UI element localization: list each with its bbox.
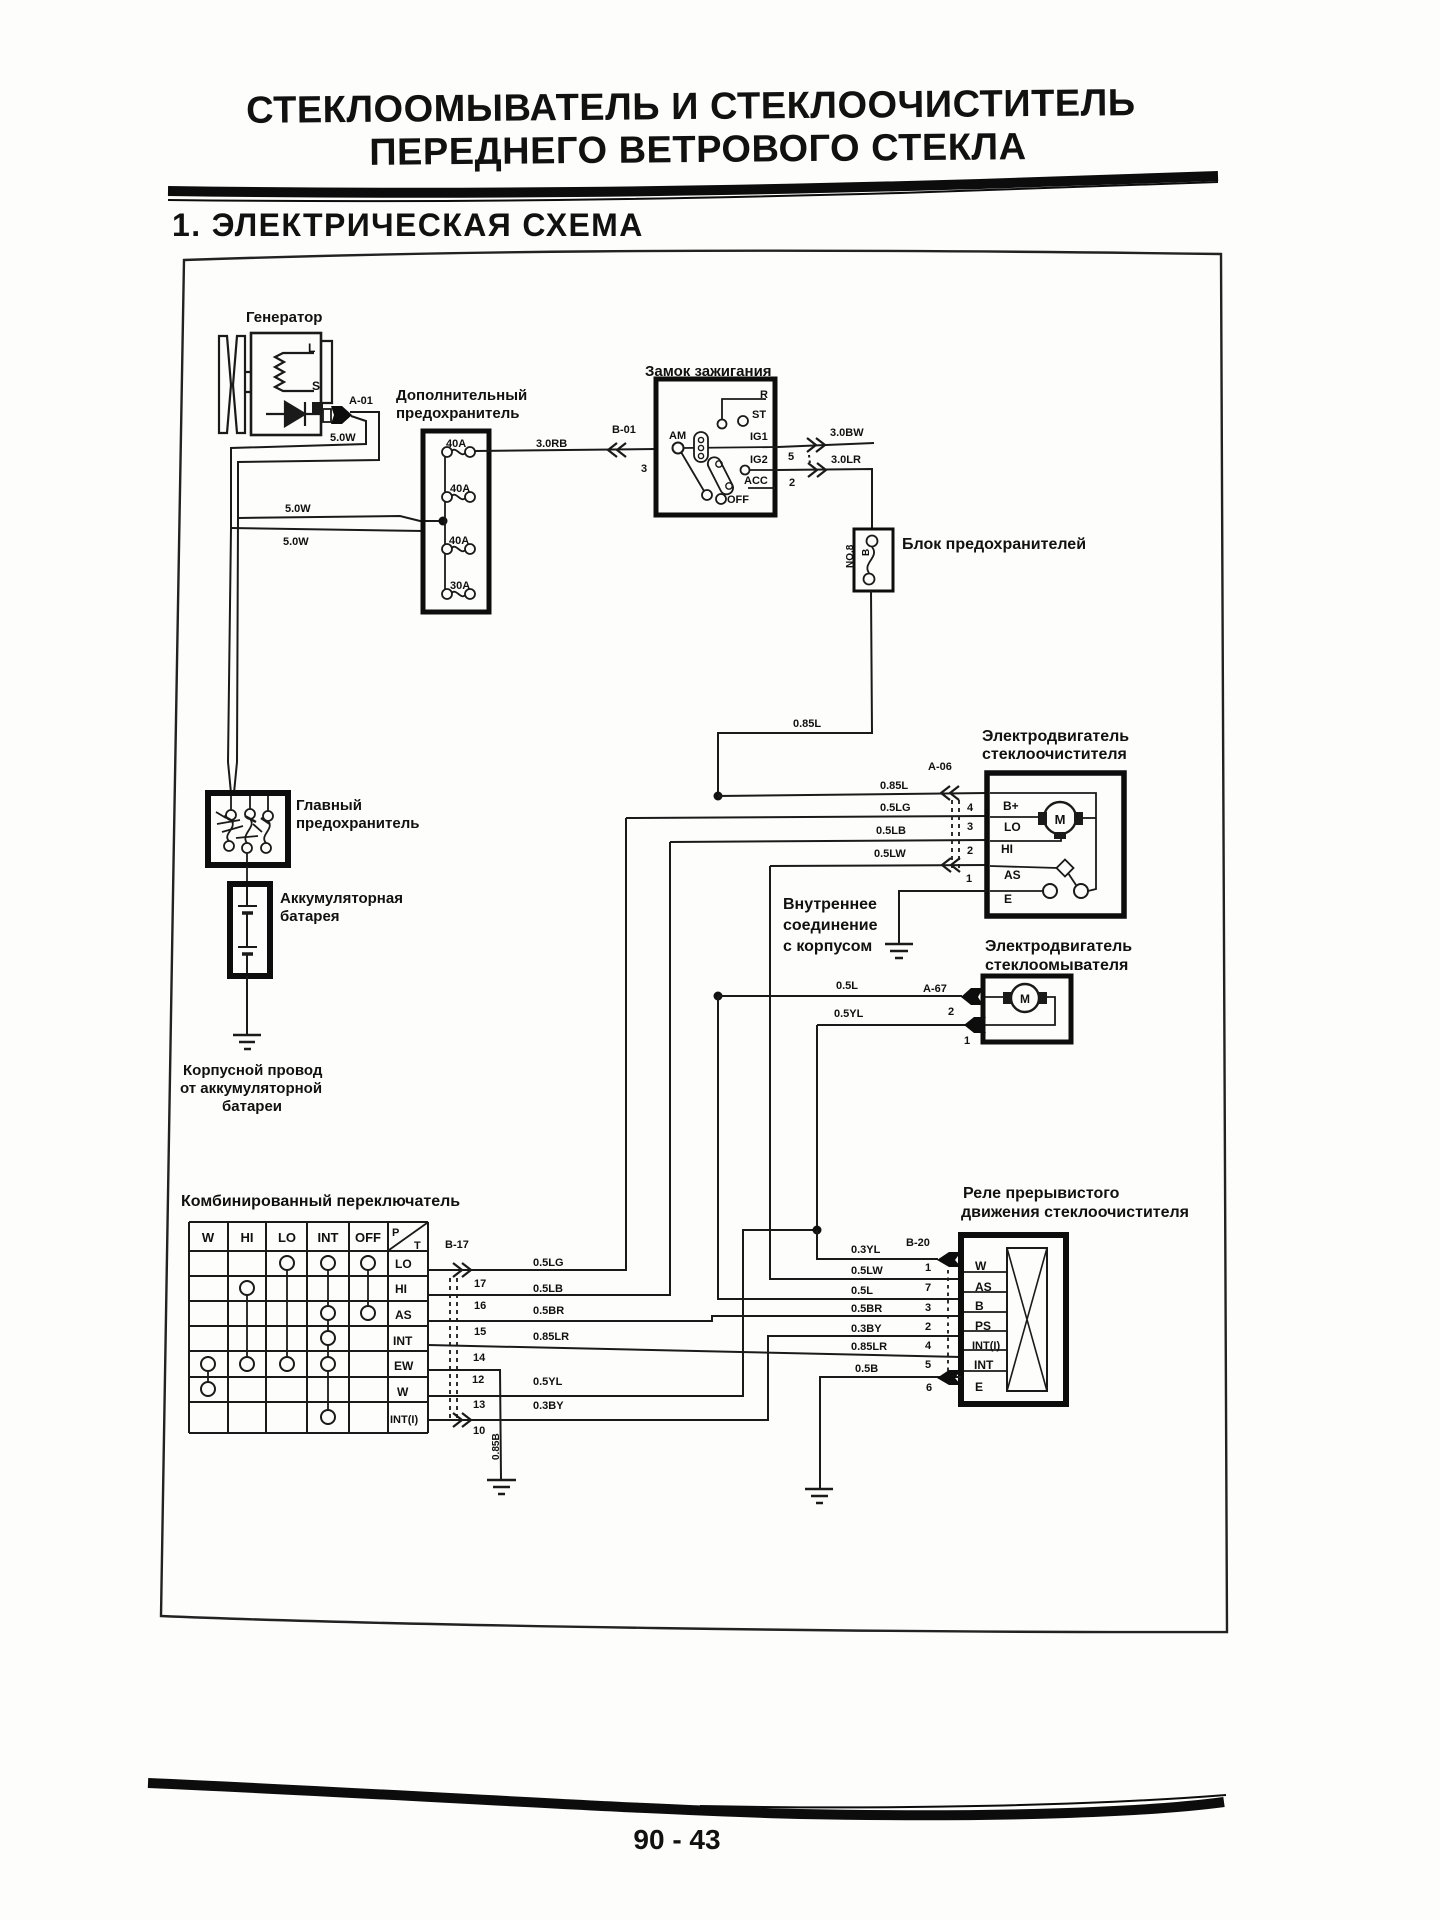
connector B-20 arrow pin6 <box>937 1370 961 1385</box>
svg-text:0.3YL: 0.3YL <box>851 1244 881 1256</box>
connector A-67 arrow pin2 <box>961 988 983 1005</box>
svg-text:1: 1 <box>964 1035 970 1047</box>
washer motor box M2 <box>983 976 1071 1042</box>
fuse 40A no.1 <box>442 447 475 457</box>
ignition rotor arm <box>681 452 704 491</box>
svg-text:3: 3 <box>925 1302 931 1314</box>
table contacts row INT(I) <box>321 1410 335 1424</box>
svg-text:2: 2 <box>948 1006 954 1018</box>
ignition ACC wire <box>748 487 775 489</box>
fuse bus inside <box>444 452 446 594</box>
ignition R contact <box>718 420 727 429</box>
svg-text:2: 2 <box>967 845 973 857</box>
svg-text:M: M <box>1055 812 1066 827</box>
wiper E contact <box>1043 884 1057 898</box>
relay inner element <box>1007 1248 1047 1391</box>
chevrons A-06 pin1 <box>942 858 960 872</box>
svg-text:B+: B+ <box>1003 799 1019 813</box>
svg-text:10: 10 <box>473 1425 485 1437</box>
additional fuse box F1 <box>423 431 489 612</box>
wire 3.0BW <box>778 443 874 447</box>
ground relay E <box>805 1489 833 1503</box>
svg-text:14: 14 <box>473 1352 486 1364</box>
svg-text:Электродвигатель: Электродвигатель <box>982 728 1129 745</box>
wire 0.3YL to relay W <box>817 1230 938 1259</box>
wire bus A down to main fuse <box>228 528 231 793</box>
connector A-67 arrow pin1 <box>964 1017 986 1033</box>
svg-text:0.85B: 0.85B <box>491 1433 502 1460</box>
svg-text:1: 1 <box>925 1262 931 1274</box>
svg-text:P: P <box>392 1227 399 1239</box>
svg-text:S: S <box>312 379 320 393</box>
wire 0.85L from fuse block <box>718 591 872 792</box>
svg-text:0.3BY: 0.3BY <box>533 1400 564 1412</box>
ignition OFF contact <box>716 494 726 504</box>
svg-text:СТЕКЛООМЫВАТЕЛЬ И СТЕКЛООЧИСТИ: СТЕКЛООМЫВАТЕЛЬ И СТЕКЛООЧИСТИТЕЛЬ <box>246 82 1136 132</box>
chevrons 3.0BW <box>807 438 825 452</box>
connector A-01 arrow <box>323 409 331 422</box>
table contacts row AS <box>321 1306 335 1320</box>
svg-text:соединение: соединение <box>783 917 878 934</box>
svg-text:13: 13 <box>473 1399 485 1411</box>
svg-text:Дополнительный: Дополнительный <box>396 387 527 404</box>
svg-text:0.5LG: 0.5LG <box>533 1257 564 1269</box>
chevrons pin 10 <box>453 1413 471 1427</box>
battery box <box>230 884 270 976</box>
chevrons A-06 pin4 <box>941 786 959 800</box>
svg-text:OFF: OFF <box>355 1230 381 1245</box>
wire 0.85L to wiper motor <box>718 793 987 796</box>
ignition rotor pill vertical <box>694 432 708 462</box>
svg-text:EW: EW <box>394 1359 414 1373</box>
ground wiper motor <box>885 944 913 958</box>
wire switch W 0.5YL <box>428 1230 817 1396</box>
generator pulley <box>219 336 251 433</box>
svg-text:Реле прерывистого: Реле прерывистого <box>963 1185 1120 1202</box>
svg-text:INT(I): INT(I) <box>972 1340 1000 1352</box>
junction dot 0.85L <box>714 792 723 801</box>
svg-text:OFF: OFF <box>727 494 749 506</box>
svg-text:W: W <box>202 1230 215 1245</box>
top rule thin echo <box>168 182 1218 201</box>
wiper internal B+ wire <box>990 793 1096 891</box>
svg-text:0.5LB: 0.5LB <box>876 825 906 837</box>
svg-text:0.85LR: 0.85LR <box>851 1341 887 1353</box>
washer motor symbol <box>1011 984 1039 1012</box>
connector B-01 chevrons <box>608 443 626 457</box>
ignition arm contact <box>702 490 712 500</box>
svg-text:W: W <box>397 1385 409 1399</box>
svg-text:0.5LG: 0.5LG <box>880 802 911 814</box>
svg-text:30A: 30A <box>450 580 470 592</box>
ground switch EW <box>487 1480 516 1494</box>
connector B-20 dashed <box>947 1270 949 1372</box>
svg-text:5.0W: 5.0W <box>283 536 309 548</box>
wire relay E to ground <box>820 1377 961 1488</box>
svg-text:0.85LR: 0.85LR <box>533 1331 569 1343</box>
svg-text:0.5L: 0.5L <box>851 1285 873 1297</box>
wire wiper E to ground <box>899 891 987 944</box>
svg-text:W: W <box>975 1259 987 1273</box>
svg-text:6: 6 <box>926 1382 932 1394</box>
wiper motor symbol <box>1044 802 1076 834</box>
table contacts row EW <box>201 1357 215 1371</box>
table contacts row W <box>201 1382 215 1396</box>
svg-text:ST: ST <box>752 409 766 421</box>
wire 0.5YL to washer <box>817 1024 965 1026</box>
wire switch LO 0.5LG <box>428 818 626 1270</box>
svg-text:HI: HI <box>1001 842 1013 856</box>
chevrons 3.0LR <box>808 463 826 477</box>
wire 5.0W tap to fuse box <box>238 516 443 521</box>
chevrons pin 17 <box>453 1263 471 1277</box>
svg-text:0.5YL: 0.5YL <box>834 1008 864 1020</box>
washer internal wires <box>985 997 1055 1025</box>
svg-text:2: 2 <box>925 1321 931 1333</box>
svg-text:IG1: IG1 <box>750 431 768 443</box>
main fuse internals <box>216 796 273 883</box>
wire A-01 lower branch <box>231 416 366 528</box>
svg-text:Генератор: Генератор <box>246 309 322 326</box>
wire 0.5LW riser to relay AS <box>770 866 961 1279</box>
svg-text:PS: PS <box>975 1319 991 1333</box>
svg-text:0.85L: 0.85L <box>880 780 908 792</box>
wiper internal LO wire <box>990 816 1038 818</box>
svg-text:LO: LO <box>1004 820 1021 834</box>
svg-text:Комбинированный переключатель: Комбинированный переключатель <box>181 1193 460 1210</box>
generator field coil <box>275 353 314 391</box>
wire battery to ground <box>246 976 248 1034</box>
relay box K1 <box>961 1235 1066 1404</box>
svg-text:A-06: A-06 <box>928 761 952 773</box>
svg-text:Аккумуляторная: Аккумуляторная <box>280 890 403 907</box>
svg-text:40A: 40A <box>450 483 470 495</box>
wire 3.0RB fuse to ignition <box>475 449 656 451</box>
fuse block NO.8 box <box>854 529 893 591</box>
junction dot 0.5YL <box>813 1226 822 1235</box>
svg-text:NO.8: NO.8 <box>845 544 856 568</box>
svg-text:1: 1 <box>966 873 972 885</box>
wiper switch common contact <box>1074 884 1088 898</box>
svg-text:0.5LW: 0.5LW <box>874 848 906 860</box>
ground battery <box>233 1035 261 1049</box>
svg-text:15: 15 <box>474 1326 486 1338</box>
svg-text:Внутреннее: Внутреннее <box>783 896 877 913</box>
connector B-17 dashed lines <box>449 1278 451 1418</box>
svg-text:4: 4 <box>925 1340 932 1352</box>
svg-text:3: 3 <box>641 463 647 475</box>
svg-text:2: 2 <box>789 477 795 489</box>
table contact link lines <box>208 1263 368 1417</box>
wire 0.5YL riser to washer <box>816 1025 818 1230</box>
fuse NO.8 element <box>867 536 878 547</box>
ignition rotor pill diagonal <box>706 455 736 497</box>
top rule bar <box>168 176 1218 193</box>
wire 0.5LW to wiper AS <box>770 865 987 866</box>
svg-text:стеклоомывателя: стеклоомывателя <box>985 957 1128 974</box>
svg-text:A-01: A-01 <box>349 395 373 407</box>
main fuse box F0 <box>208 793 288 865</box>
connector dotted gap <box>809 455 810 464</box>
svg-text:1. ЭЛЕКТРИЧЕСКАЯ СХЕМА: 1. ЭЛЕКТРИЧЕСКАЯ СХЕМА <box>172 207 644 243</box>
svg-text:M: M <box>1020 992 1030 1006</box>
svg-text:E: E <box>975 1380 983 1394</box>
svg-text:LO: LO <box>278 1230 296 1245</box>
svg-text:AS: AS <box>395 1308 412 1322</box>
svg-text:стеклоочистителя: стеклоочистителя <box>982 746 1127 763</box>
svg-text:40A: 40A <box>449 535 469 547</box>
svg-text:16: 16 <box>474 1300 486 1312</box>
svg-text:B-20: B-20 <box>906 1237 930 1249</box>
bottom rule thin echo <box>700 1795 1226 1807</box>
wiper switch arm <box>1068 873 1076 885</box>
wire 0.5L riser to relay B <box>718 996 961 1299</box>
battery cells <box>238 887 257 973</box>
svg-text:0.5BR: 0.5BR <box>851 1303 882 1315</box>
svg-text:5: 5 <box>788 451 794 463</box>
svg-text:3.0RB: 3.0RB <box>536 438 567 450</box>
svg-text:5.0W: 5.0W <box>285 503 311 515</box>
relay ladder rungs <box>964 1272 1007 1371</box>
svg-text:7: 7 <box>925 1282 931 1294</box>
svg-text:предохранитель: предохранитель <box>296 815 419 832</box>
generator diode D1 <box>266 402 321 426</box>
table contacts row LO <box>201 1256 375 1424</box>
table contacts row INT <box>321 1331 335 1345</box>
svg-text:Корпусной провод: Корпусной провод <box>183 1062 323 1079</box>
connector A-06 dashed <box>951 800 953 868</box>
svg-text:B: B <box>975 1299 984 1313</box>
wire bus B down to main fuse <box>234 518 238 793</box>
wiper motor box M1 <box>987 773 1124 916</box>
combination switch table grid <box>189 1222 428 1433</box>
fuse 40A no.2 <box>442 492 475 502</box>
wiper internal HI wire <box>990 838 1061 841</box>
svg-text:90 - 43: 90 - 43 <box>633 1824 720 1855</box>
wiper switch diamond contact <box>1057 860 1074 877</box>
svg-text:5: 5 <box>925 1359 931 1371</box>
svg-text:движения стеклоочистителя: движения стеклоочистителя <box>961 1204 1189 1221</box>
svg-text:LO: LO <box>395 1257 412 1271</box>
svg-text:0.5YL: 0.5YL <box>533 1376 563 1388</box>
ignition AM-IG1 wire <box>683 447 778 448</box>
svg-text:AS: AS <box>975 1280 992 1294</box>
fuse 40A no.3 <box>442 544 475 554</box>
svg-text:ПЕРЕДНЕГО ВЕТРОВОГО СТЕКЛА: ПЕРЕДНЕГО ВЕТРОВОГО СТЕКЛА <box>369 126 1027 174</box>
bottom rule bar <box>148 1783 1224 1815</box>
svg-text:B-01: B-01 <box>612 424 636 436</box>
svg-text:батареи: батареи <box>222 1098 282 1115</box>
wire 0.5LG to wiper LO <box>626 816 987 818</box>
wire 0.5LB to wiper HI <box>670 840 987 842</box>
svg-text:0.5BR: 0.5BR <box>533 1305 564 1317</box>
ignition AM contact <box>673 443 684 454</box>
svg-text:0.3BY: 0.3BY <box>851 1323 882 1335</box>
svg-text:3.0LR: 3.0LR <box>831 454 861 466</box>
svg-text:Электродвигатель: Электродвигатель <box>985 938 1132 955</box>
svg-text:0.5L: 0.5L <box>836 980 858 992</box>
ignition IG2 contact <box>741 466 750 475</box>
svg-text:17: 17 <box>474 1278 486 1290</box>
svg-text:INT: INT <box>974 1358 994 1372</box>
svg-text:INT: INT <box>318 1230 339 1245</box>
svg-text:от аккумуляторной: от аккумуляторной <box>180 1080 322 1097</box>
svg-text:4: 4 <box>967 802 974 814</box>
svg-text:ACC: ACC <box>744 475 768 487</box>
svg-text:батарея: батарея <box>280 908 340 925</box>
table contacts row HI <box>240 1281 254 1295</box>
svg-text:Блок предохранителей: Блок предохранителей <box>902 536 1086 553</box>
svg-text:5.0W: 5.0W <box>330 432 356 444</box>
svg-text:B: B <box>861 549 872 556</box>
svg-text:предохранитель: предохранитель <box>396 405 519 422</box>
ignition switch box S1 <box>656 379 775 515</box>
table header P/T diagonal <box>389 1223 427 1250</box>
svg-text:B-17: B-17 <box>445 1239 469 1251</box>
wire switch AS 0.5BR <box>428 1316 961 1321</box>
svg-text:0.5LB: 0.5LB <box>533 1283 563 1295</box>
ignition ST contact <box>738 416 748 426</box>
svg-text:Главный: Главный <box>296 797 362 814</box>
wire switch INT 0.85LR <box>428 1345 961 1357</box>
ignition IG2 wire <box>750 469 778 471</box>
svg-text:AM: AM <box>669 430 686 442</box>
wire 0.5L to washer <box>718 995 962 997</box>
svg-text:INT(I): INT(I) <box>390 1414 418 1426</box>
wire 3.0LR <box>778 469 872 529</box>
svg-text:с корпусом: с корпусом <box>783 938 872 955</box>
svg-text:0.5B: 0.5B <box>855 1363 878 1375</box>
generator output terminal <box>312 402 323 413</box>
ignition R wire <box>722 399 765 420</box>
svg-text:0.5LW: 0.5LW <box>851 1265 883 1277</box>
junction dot fuse box <box>439 517 448 526</box>
svg-text:A-67: A-67 <box>923 983 947 995</box>
wire switch HI 0.5LB <box>428 842 670 1295</box>
svg-text:E: E <box>1004 892 1012 906</box>
wire A-01 upper branch <box>238 412 379 518</box>
svg-text:40A: 40A <box>446 438 466 450</box>
wiper internal E wire <box>990 890 1043 892</box>
wire switch EW to ground <box>428 1370 501 1479</box>
wiper internal AS wire <box>990 866 1058 868</box>
svg-text:IG2: IG2 <box>750 454 768 466</box>
svg-text:AS: AS <box>1004 868 1021 882</box>
svg-text:INT: INT <box>393 1334 413 1348</box>
svg-text:HI: HI <box>395 1282 407 1296</box>
schematic outer frame <box>161 251 1227 1632</box>
svg-text:0.85L: 0.85L <box>793 718 821 730</box>
connector B-20 arrow pin1 <box>937 1252 961 1267</box>
svg-text:T: T <box>414 1240 421 1252</box>
svg-text:12: 12 <box>472 1374 484 1386</box>
wire 5.0W lower tap <box>231 528 424 531</box>
svg-text:3: 3 <box>967 821 973 833</box>
junction dot 0.5L <box>714 992 723 1001</box>
generator right tab <box>321 341 332 403</box>
wire switch INT(I) 0.3BY <box>428 1336 961 1420</box>
svg-text:3.0BW: 3.0BW <box>830 427 864 439</box>
svg-text:HI: HI <box>241 1230 254 1245</box>
fuse 30A no.4 <box>442 589 475 599</box>
generator U1 body <box>251 333 321 435</box>
